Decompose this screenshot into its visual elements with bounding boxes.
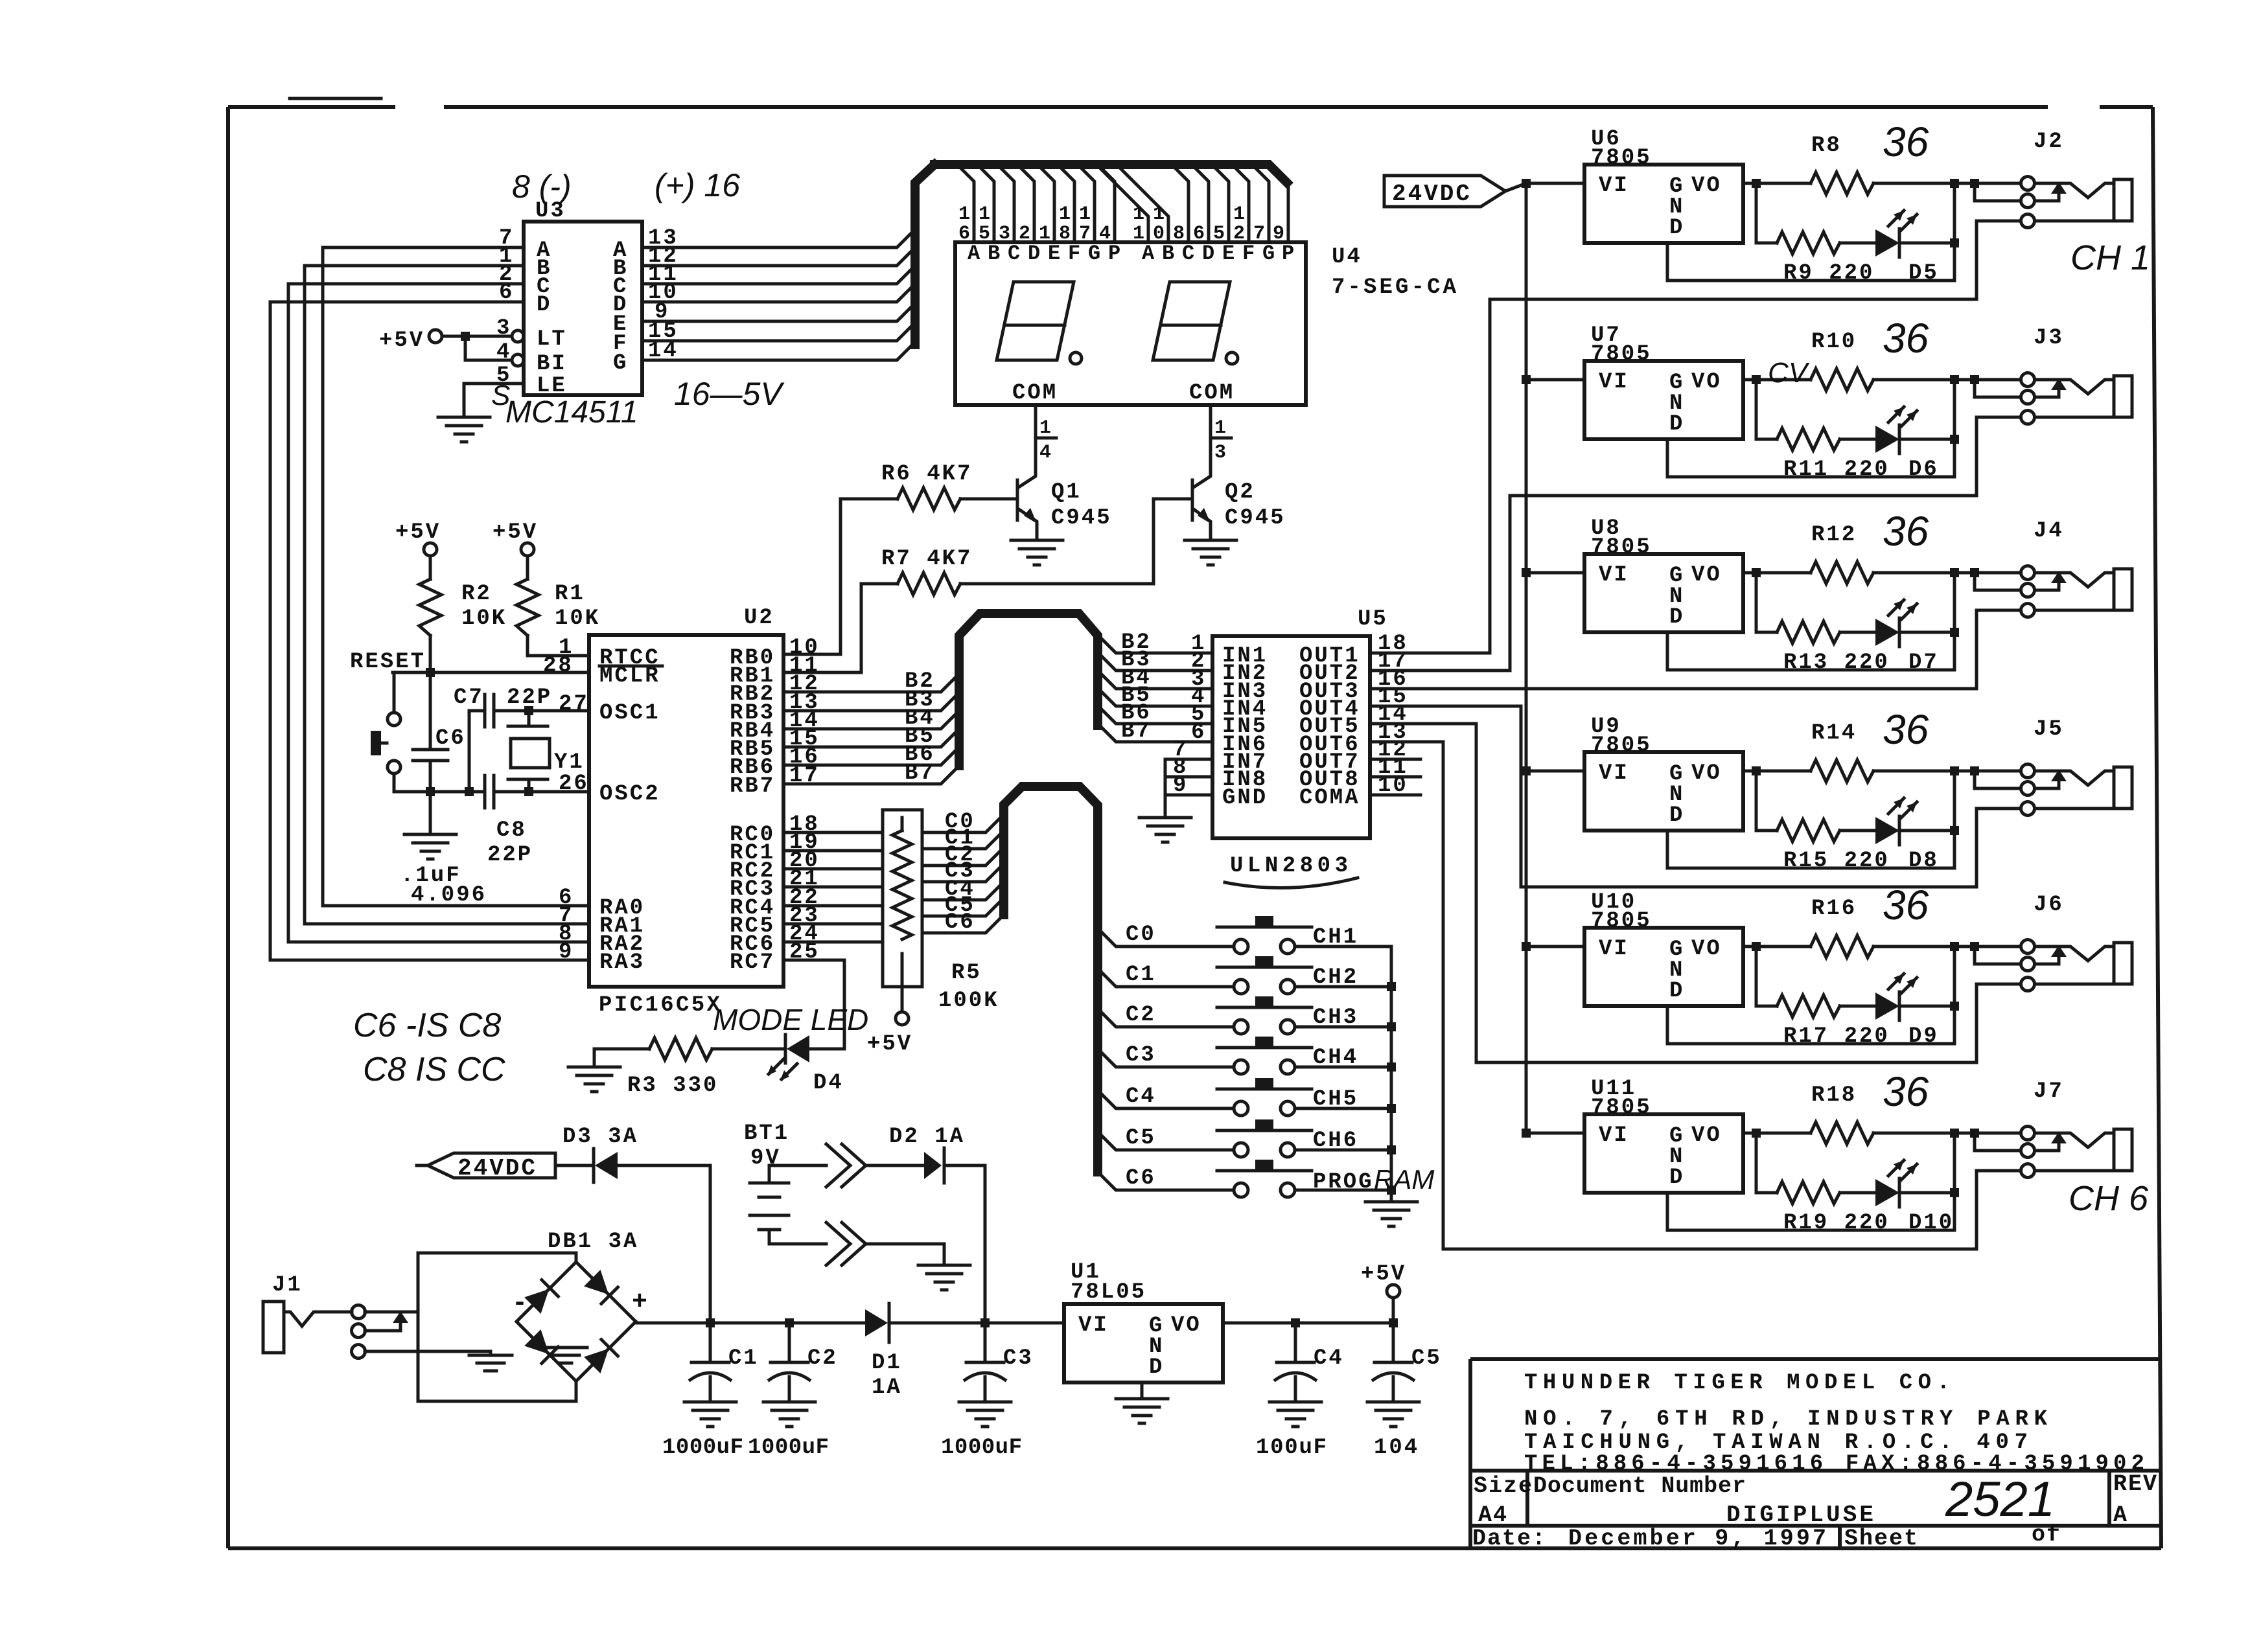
regulator U10 7805 xyxy=(1522,942,1531,951)
IC U2 PIC16C5X body xyxy=(589,635,783,987)
svg-text:DIGIPLUSE: DIGIPLUSE xyxy=(1726,1502,1875,1528)
wire RB5 to B bus xyxy=(783,729,959,747)
display U4 7-SEG-CA body xyxy=(955,242,1306,405)
svg-text:R7 4K7: R7 4K7 xyxy=(881,547,972,571)
U4 digit 2 xyxy=(1153,282,1230,360)
svg-text:7805: 7805 xyxy=(1591,733,1652,758)
svg-text:C0: C0 xyxy=(1126,923,1156,947)
svg-text:7805: 7805 xyxy=(1591,342,1652,367)
svg-text:CH1: CH1 xyxy=(1313,925,1358,950)
wire R5 to C bus C2 xyxy=(922,847,1004,866)
wire C bus to button C0 xyxy=(1098,928,1234,946)
wire C7 left to C8 left xyxy=(468,711,471,792)
svg-text:7805: 7805 xyxy=(1591,1096,1652,1120)
svg-text:J1: J1 xyxy=(272,1273,303,1298)
svg-text:REV: REV xyxy=(2113,1471,2158,1497)
wire C bus to button C1 xyxy=(1098,969,1234,987)
svg-text:F: F xyxy=(1068,242,1082,266)
resistor R7 4K7 xyxy=(898,573,960,595)
capacitor C5 104 xyxy=(1392,1323,1395,1362)
capacitor C1 1000uF xyxy=(709,1323,712,1362)
svg-text:CH3: CH3 xyxy=(1313,1005,1358,1030)
wire button CH2 to common xyxy=(1295,985,1391,989)
wire U7 VO output xyxy=(1743,378,1811,382)
svg-text:10K: 10K xyxy=(461,606,507,631)
svg-text:1: 1 xyxy=(958,203,972,225)
svg-text:36: 36 xyxy=(1883,882,1929,928)
svg-text:E: E xyxy=(1048,242,1062,266)
resistor network R5 100K xyxy=(883,810,922,987)
svg-text:G: G xyxy=(613,351,628,376)
svg-text:36: 36 xyxy=(1883,706,1929,753)
wire U5 OUT3 to jack return xyxy=(1370,687,1977,691)
svg-text:C6 -IS C8: C6 -IS C8 xyxy=(353,1007,501,1044)
wire R18 to jack tip xyxy=(1873,1132,2021,1135)
wire sleeve of J2 to return xyxy=(1977,221,2021,299)
svg-text:COMA: COMA xyxy=(1299,786,1360,810)
ground for Q2 emitter xyxy=(1185,540,1236,565)
svg-text:36: 36 xyxy=(1883,119,1929,165)
svg-text:PROG: PROG xyxy=(1313,1170,1374,1195)
LED D10 xyxy=(1875,1160,1917,1207)
U4 digit 2 decimal point xyxy=(1226,352,1238,364)
svg-text:4.096: 4.096 xyxy=(411,883,487,908)
wire R16 to jack tip xyxy=(1873,945,2021,948)
wire R2 to reset node xyxy=(429,636,432,672)
diode D1 1A xyxy=(865,1309,888,1337)
wire OSC1 xyxy=(529,709,589,713)
wire R5 to C bus C5 xyxy=(922,898,1004,916)
transistor Q1 C945 xyxy=(1016,480,1019,520)
main unregulated rail xyxy=(636,1322,1064,1323)
svg-text:A: A xyxy=(1142,242,1156,266)
wire RC6 to R5 xyxy=(783,941,883,944)
resistor R1 10K xyxy=(526,556,529,579)
wire R19 to LED D10 xyxy=(1840,1191,1875,1195)
svg-text:+: + xyxy=(632,1288,649,1317)
svg-text:C2: C2 xyxy=(807,1346,838,1371)
pushbutton CH1 xyxy=(1217,916,1312,954)
svg-text:-: - xyxy=(512,1289,529,1318)
wire C bus to button C2 xyxy=(1098,1009,1234,1027)
svg-text:R8: R8 xyxy=(1811,133,1842,158)
wire U3 segment output 10 xyxy=(642,284,915,302)
U4 pin 8 drop xyxy=(1172,165,1188,242)
svg-text:U5: U5 xyxy=(1358,607,1388,632)
wire U3 segment output 0 xyxy=(642,303,915,321)
svg-text:COM: COM xyxy=(1189,381,1235,406)
wire U6 branch down xyxy=(1756,183,1777,243)
LED D5 xyxy=(1875,211,1917,257)
wire U3 input to U2 RA1 xyxy=(305,266,589,924)
wire RC4 to R5 xyxy=(783,904,883,908)
svg-text:+5V: +5V xyxy=(379,328,424,353)
svg-text:CH5: CH5 xyxy=(1313,1087,1358,1112)
IC U3 14511 body xyxy=(524,222,642,395)
svg-text:R18: R18 xyxy=(1811,1083,1857,1108)
svg-text:ULN2803: ULN2803 xyxy=(1230,854,1350,878)
wire U10 GND return rail xyxy=(1667,1006,1954,1044)
wire RC5 to R5 xyxy=(783,923,883,926)
wire sleeve of J5 to return xyxy=(1977,809,2021,887)
capacitor C4 100uF xyxy=(1294,1323,1297,1362)
resistor R6 4K7 xyxy=(898,488,960,510)
ground for R3 xyxy=(568,1067,620,1092)
svg-text:8 (-): 8 (-) xyxy=(512,168,572,205)
wire RB3 to B bus xyxy=(783,693,959,711)
wire U4 COM2 to Q2 collector xyxy=(1194,405,1211,487)
svg-text:P: P xyxy=(1108,242,1122,266)
svg-text:10K: 10K xyxy=(555,606,600,631)
svg-text:D3 3A: D3 3A xyxy=(562,1125,638,1149)
resistor R8 36 xyxy=(1811,172,1873,194)
svg-text:C7: C7 xyxy=(454,685,484,710)
wire U9 GND return rail xyxy=(1667,831,1954,868)
wire ring contact of J6 xyxy=(1975,946,2021,964)
svg-text:OSC2: OSC2 xyxy=(599,782,660,807)
svg-text:R5: R5 xyxy=(951,961,982,985)
svg-text:+5V: +5V xyxy=(395,520,441,545)
svg-text:C6: C6 xyxy=(945,910,975,935)
svg-text:B7: B7 xyxy=(905,761,935,786)
svg-text:A: A xyxy=(968,242,982,266)
wire U9 branch down xyxy=(1756,771,1777,831)
wire R13 to LED D7 xyxy=(1840,631,1875,634)
regulator U1 78L05 xyxy=(1064,1304,1223,1382)
svg-text:7805: 7805 xyxy=(1591,909,1652,934)
svg-text:7805: 7805 xyxy=(1591,146,1652,170)
scan artifact dash on top border xyxy=(290,97,381,100)
wire button CH5 to common xyxy=(1295,1107,1391,1110)
svg-text:U2: U2 xyxy=(744,606,774,630)
resistor R12 36 xyxy=(1811,562,1873,584)
svg-text:J6: J6 xyxy=(2034,893,2064,917)
wire U5 OUT1 to jack return xyxy=(1370,299,1977,653)
jack J2 xyxy=(2021,177,2133,228)
ground for Q1 emitter xyxy=(1011,540,1063,565)
wire U1 VO to +5V xyxy=(1223,1322,1393,1325)
svg-text:C5: C5 xyxy=(1411,1346,1442,1371)
ground for U5 xyxy=(1139,818,1191,842)
svg-text:R12: R12 xyxy=(1811,523,1857,547)
U4 pin 16 drop xyxy=(957,165,974,242)
wire RB4 to B bus xyxy=(783,711,959,729)
wire button CH6 to common xyxy=(1295,1149,1391,1152)
wire U11 branch down xyxy=(1756,1133,1777,1193)
diode D2 1A xyxy=(924,1152,942,1179)
wire RC1 to R5 xyxy=(783,849,883,853)
svg-text:J4: J4 xyxy=(2034,519,2064,544)
wire RB1 to R7 and Q2 base xyxy=(783,499,1154,672)
U4 pin 5 drop xyxy=(1212,165,1229,242)
wire R15 to LED D8 xyxy=(1840,829,1875,832)
svg-text:G: G xyxy=(1088,242,1102,266)
svg-text:78L05: 78L05 xyxy=(1071,1280,1146,1305)
ground for J1 xyxy=(469,1355,512,1371)
svg-text:1000uF: 1000uF xyxy=(662,1436,745,1460)
wire ring contact of J4 xyxy=(1975,573,2021,590)
wire C bus to button C6 xyxy=(1098,1172,1234,1190)
svg-text:Q2: Q2 xyxy=(1225,480,1255,505)
svg-text:R6 4K7: R6 4K7 xyxy=(881,462,972,487)
svg-text:THUNDER TIGER MODEL CO.: THUNDER TIGER MODEL CO. xyxy=(1524,1371,1952,1395)
wire B bus to U5 IN5 xyxy=(1098,706,1212,724)
wire U7 branch down xyxy=(1756,380,1777,439)
jack J7 xyxy=(2021,1127,2133,1178)
svg-text:6: 6 xyxy=(1191,720,1206,745)
svg-text:100K: 100K xyxy=(938,989,999,1013)
U5 COMA stub xyxy=(1370,794,1420,797)
svg-text:BT1: BT1 xyxy=(744,1121,789,1146)
title block frame xyxy=(1470,1359,2160,1548)
svg-text:1000uF: 1000uF xyxy=(941,1436,1024,1460)
page border frame xyxy=(228,107,2161,1548)
svg-text:CH6: CH6 xyxy=(1313,1129,1358,1153)
bridge diode TR xyxy=(584,1270,618,1303)
wire button PROGRAM to common xyxy=(1295,1189,1391,1192)
wire RB6 to B bus xyxy=(783,747,959,765)
svg-text:Sheet: Sheet xyxy=(1844,1526,1919,1552)
capacitor C6 .1uF xyxy=(413,672,448,832)
svg-text:16—5V: 16—5V xyxy=(674,376,785,412)
wire J1 sleeve to ground xyxy=(365,1351,491,1354)
svg-text:7-SEG-CA: 7-SEG-CA xyxy=(1332,275,1458,300)
wire U3 LE to ground xyxy=(464,384,524,415)
LED D6 xyxy=(1875,407,1917,453)
wire button to reset line and bottom rail xyxy=(394,672,485,792)
svg-text:B: B xyxy=(988,242,1002,266)
wire U6 VO output xyxy=(1743,182,1811,185)
svg-text:R14: R14 xyxy=(1811,721,1857,746)
wire RB7 to B bus xyxy=(783,766,959,784)
resistor R14 36 xyxy=(1811,760,1873,782)
regulator U7 7805 xyxy=(1522,375,1531,384)
svg-text:D: D xyxy=(537,293,551,317)
+5V output node xyxy=(1392,1298,1395,1323)
thick C bus arch xyxy=(1004,786,1098,1172)
bridge diode TL xyxy=(524,1280,558,1314)
svg-text:U4: U4 xyxy=(1332,245,1362,270)
svg-text:CH2: CH2 xyxy=(1313,965,1358,990)
U4 digit 1 decimal point xyxy=(1070,352,1082,364)
wire button common rail xyxy=(1390,946,1393,1199)
svg-text:CH4: CH4 xyxy=(1313,1046,1358,1070)
svg-text:100uF: 100uF xyxy=(1256,1436,1328,1460)
wire RB0 to R6 xyxy=(783,499,898,654)
svg-text:D2 1A: D2 1A xyxy=(889,1125,965,1149)
wire U5 OUT2 to jack return xyxy=(1370,496,1977,671)
svg-text:28: 28 xyxy=(543,654,574,678)
svg-text:3: 3 xyxy=(1214,442,1228,464)
regulator U11 7805 xyxy=(1522,1129,1531,1138)
wire D6 cathode to tip node xyxy=(1899,380,1954,439)
svg-text:Y1: Y1 xyxy=(554,750,585,775)
ground for C6 xyxy=(404,834,456,859)
svg-text:1: 1 xyxy=(1059,203,1073,225)
svg-text:D: D xyxy=(1028,242,1042,266)
wire ring contact of J7 xyxy=(1975,1133,2021,1151)
U4 pin 7 drop xyxy=(1252,165,1269,242)
svg-text:OSC1: OSC1 xyxy=(599,701,660,726)
resistor R9 220 xyxy=(1777,232,1840,254)
capacitor C7 22P xyxy=(469,694,529,727)
wire button CH4 to common xyxy=(1295,1066,1391,1069)
U4 digit 1 xyxy=(997,282,1074,360)
wire D3 to main rail xyxy=(618,1165,710,1323)
svg-text:C: C xyxy=(1008,242,1022,266)
regulator U6 7805 xyxy=(1522,179,1531,188)
ground for battery return xyxy=(918,1265,970,1290)
svg-text:J2: J2 xyxy=(2034,130,2064,154)
pushbutton CH3 xyxy=(1217,996,1312,1034)
svg-text:C3: C3 xyxy=(1126,1043,1156,1068)
IC U5 ULN2803 body xyxy=(1212,636,1370,838)
svg-text:4: 4 xyxy=(1039,442,1053,464)
connector pair battery plus xyxy=(826,1144,866,1187)
svg-text:B7: B7 xyxy=(1121,719,1152,744)
svg-text:1A: 1A xyxy=(872,1375,902,1400)
resistor R10 36 xyxy=(1811,369,1873,391)
wire R5 to C bus C0 xyxy=(922,814,1004,832)
24VDC distribution rail xyxy=(1525,183,1528,1133)
svg-text:1: 1 xyxy=(1214,417,1228,439)
wire connector to D2 xyxy=(866,1164,924,1167)
wire R5 to +5V xyxy=(901,987,904,1012)
U3 input bubbles LT BI xyxy=(512,330,524,342)
wire R9 to LED D5 xyxy=(1840,242,1875,245)
wire U3 segment output 0 xyxy=(642,342,915,360)
svg-text:J5: J5 xyxy=(2034,717,2064,742)
pushbutton CH6 xyxy=(1217,1119,1312,1157)
svg-text:CV: CV xyxy=(1768,357,1810,389)
svg-text:R2: R2 xyxy=(461,582,492,606)
wire C bus to button C5 xyxy=(1098,1132,1234,1150)
LED D4 (mode) xyxy=(787,1035,809,1062)
svg-text:J7: J7 xyxy=(2034,1079,2064,1104)
wire U5 OUT5 to jack return xyxy=(1370,724,1977,1062)
bridge diode BL xyxy=(524,1329,558,1363)
wire U10 branch down xyxy=(1756,946,1777,1006)
ground inside bridge xyxy=(544,1348,587,1363)
svg-text:22P: 22P xyxy=(487,843,533,867)
wire R17 to LED D9 xyxy=(1840,1005,1875,1008)
resistor R2 10K xyxy=(429,556,432,579)
bridge diode BR xyxy=(584,1340,618,1373)
svg-text:R1: R1 xyxy=(555,582,585,606)
wire U9 VO output xyxy=(1743,770,1811,773)
wire R5 to C bus C1 xyxy=(922,831,1004,849)
wire RC7 to D4 xyxy=(783,960,844,1049)
wire ring contact of J2 xyxy=(1975,183,2021,201)
wire OSC2 xyxy=(529,790,589,794)
svg-text:GND: GND xyxy=(1222,786,1268,810)
svg-text:D1: D1 xyxy=(872,1351,902,1375)
wire D8 cathode to tip node xyxy=(1899,771,1954,831)
svg-text:C6: C6 xyxy=(1126,1166,1156,1191)
wire button CH1 to common xyxy=(1295,945,1391,948)
resistor R19 220 xyxy=(1777,1182,1840,1204)
diode D3 3A xyxy=(555,1164,594,1167)
svg-text:1: 1 xyxy=(1079,203,1093,225)
svg-text:C2: C2 xyxy=(1126,1003,1156,1027)
svg-text:C6: C6 xyxy=(435,726,466,751)
pushbutton PROGRAM xyxy=(1217,1160,1312,1197)
wire D5 cathode to tip node xyxy=(1899,183,1954,243)
svg-text:+5V: +5V xyxy=(1361,1262,1406,1287)
svg-text:C1: C1 xyxy=(1126,963,1156,987)
wire RC0 to R5 xyxy=(783,831,883,834)
U4 pin 11 drop xyxy=(1096,165,1148,242)
svg-text:of: of xyxy=(2032,1522,2061,1548)
thick segment bus left leg xyxy=(915,165,934,345)
svg-text:PIC16C5X: PIC16C5X xyxy=(599,993,722,1018)
svg-text:D4: D4 xyxy=(813,1071,844,1096)
wire U3 segment output 12 xyxy=(642,247,915,266)
wire sleeve of J4 to return xyxy=(1977,610,2021,689)
svg-text:36: 36 xyxy=(1883,315,1929,361)
wire RC3 to R5 xyxy=(783,886,883,889)
svg-text:D: D xyxy=(1202,242,1216,266)
capacitor C8 22P xyxy=(485,775,529,808)
wire U3 input to U2 RA2 xyxy=(288,284,589,942)
svg-text:C3: C3 xyxy=(1003,1346,1034,1371)
wire R14 to jack tip xyxy=(1873,770,2021,773)
wire button CH3 to common xyxy=(1295,1026,1391,1029)
wire RC2 to R5 xyxy=(783,867,883,871)
resistor R11 220 xyxy=(1777,428,1840,450)
svg-text:RB7: RB7 xyxy=(730,774,775,799)
svg-text:36: 36 xyxy=(1883,508,1929,555)
svg-text:24VDC: 24VDC xyxy=(458,1155,537,1182)
regulator U9 7805 xyxy=(1522,766,1531,775)
wire D9 cathode to tip node xyxy=(1899,946,1954,1006)
svg-text:CH 1: CH 1 xyxy=(2070,238,2150,277)
svg-text:RAM: RAM xyxy=(1374,1164,1434,1195)
svg-text:RC7: RC7 xyxy=(730,950,775,975)
jack J6 xyxy=(2021,940,2133,991)
wire U8 branch down xyxy=(1756,573,1777,632)
wire reset line to U2 MCLR xyxy=(393,671,589,674)
wire U5 OUT4 to jack return xyxy=(1370,706,1977,887)
thick segment bus top xyxy=(934,165,1287,183)
wire B bus to U5 IN2 xyxy=(1098,652,1212,671)
wire battery minus to connector xyxy=(769,1243,826,1246)
svg-text:A4: A4 xyxy=(1478,1502,1508,1528)
LED D7 xyxy=(1875,600,1917,647)
wire R1 to U2 RTCC pin1 xyxy=(528,636,589,656)
svg-text:P: P xyxy=(1282,242,1296,266)
wire R12 to jack tip xyxy=(1873,571,2021,575)
wire U5 IN7 IN8 GND to ground xyxy=(1165,759,1212,815)
U4 pin 1 drop xyxy=(1038,165,1054,242)
pushbutton CH5 xyxy=(1217,1078,1312,1116)
wire R11 to LED D6 xyxy=(1840,438,1875,441)
svg-text:+5V: +5V xyxy=(867,1032,912,1057)
wire U3 input to U2 RA0 xyxy=(323,247,589,906)
crystal Y1 xyxy=(508,711,548,792)
wire B bus to U5 IN1 xyxy=(1098,635,1212,653)
svg-text:1: 1 xyxy=(1133,203,1146,225)
svg-text:E: E xyxy=(1222,242,1236,266)
svg-text:1: 1 xyxy=(1233,203,1247,225)
wire sleeve of J6 to return xyxy=(1977,984,2021,1062)
U4 pin 10 drop xyxy=(1117,165,1168,242)
svg-text:CH 6: CH 6 xyxy=(2069,1179,2149,1218)
transistor Q2 C945 xyxy=(1191,480,1194,520)
wire U3 segment output 11 xyxy=(642,266,915,284)
svg-text:C1: C1 xyxy=(728,1346,759,1371)
svg-text:RESET: RESET xyxy=(350,650,426,674)
